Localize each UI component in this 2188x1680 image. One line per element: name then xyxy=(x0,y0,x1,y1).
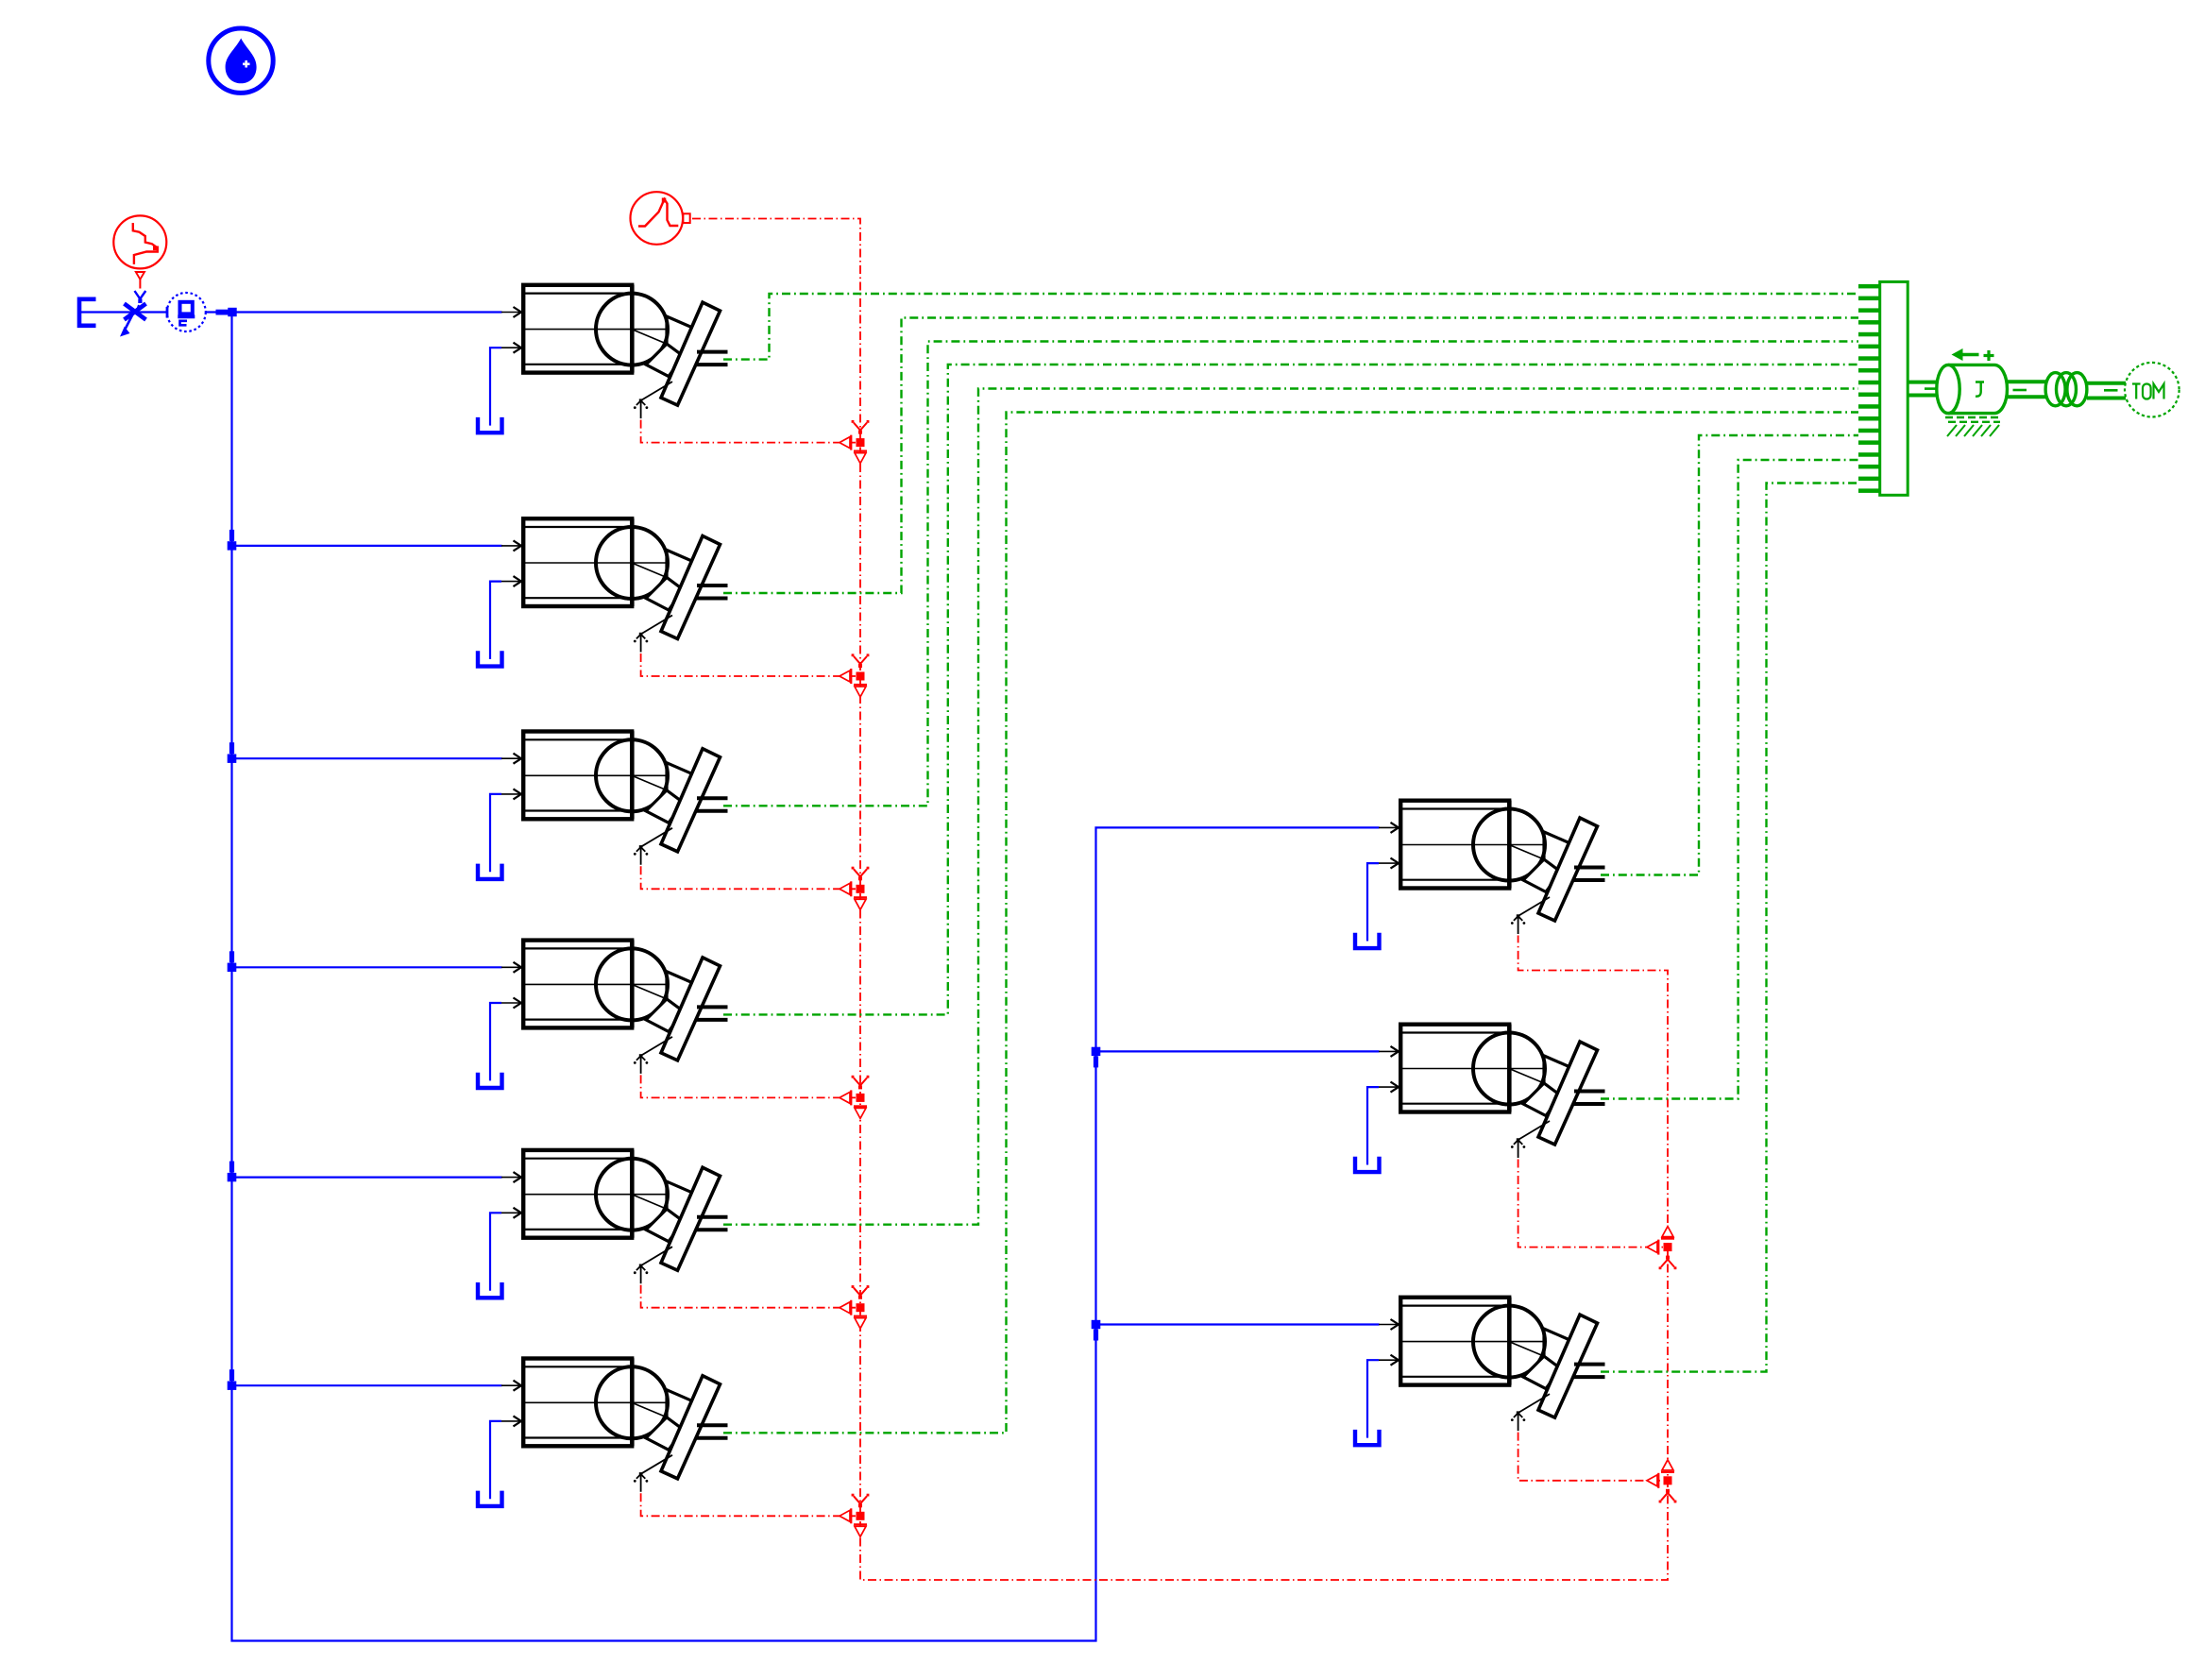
wire tap to pump L2 xyxy=(232,545,502,547)
wire control pump L1 xyxy=(641,420,856,443)
red junction pump L1 xyxy=(840,420,869,464)
wire shaft pump L1 to junction lane 1 xyxy=(723,294,1858,360)
rotary multiport junction (comb) xyxy=(1858,281,1908,495)
wire signal source 2 to left trunk, bottom run, right trunk xyxy=(692,219,1668,1581)
wire shaft pump L5 lane 5 xyxy=(723,389,1858,1225)
pump L1 xyxy=(478,285,728,433)
wire tap to pump L5 xyxy=(232,1176,502,1178)
signal source 1 (piecewise) xyxy=(113,215,166,279)
shaft inertia to spring xyxy=(2007,382,2046,397)
red junction pump R2 xyxy=(1647,1227,1676,1270)
blue tap junction L5 xyxy=(228,1162,237,1182)
blue tap junction L3 xyxy=(228,742,237,763)
shaft spring to torque meter xyxy=(2087,383,2126,399)
wire tap to pump L6 xyxy=(232,1384,502,1386)
torsion spring xyxy=(2045,373,2087,406)
blue tap junction R2 xyxy=(1092,1047,1101,1068)
wire shaft pump L4 lane 4 xyxy=(723,365,1858,1014)
wire shaft pump R1 lane 7 xyxy=(1601,435,1858,875)
ground (hatched support) xyxy=(1945,416,2000,418)
wire tap to pump R3 xyxy=(1096,1323,1380,1325)
fluid properties icon xyxy=(209,28,273,93)
pump L4 xyxy=(478,940,728,1088)
pump L6 xyxy=(478,1358,728,1506)
wire tap to pump L4 xyxy=(232,966,502,968)
pump L3 xyxy=(478,731,728,879)
wire supply trunk down, bottom run, right trunk up to pump R1 xyxy=(232,313,1380,1641)
blue tap junction L2 xyxy=(228,530,237,551)
wire control pump L2 xyxy=(641,653,856,676)
blue main junction xyxy=(216,308,237,316)
wire control pump R2 xyxy=(1518,1160,1663,1247)
rotation direction arrow and plus sign xyxy=(1956,353,1979,357)
red junction pump R3 xyxy=(1647,1460,1676,1503)
wire shaft pump L6 lane 6 xyxy=(723,413,1858,1434)
pump L5 xyxy=(478,1150,728,1298)
wire shaft pump R2 lane 8 xyxy=(1601,460,1858,1099)
red junction pump L2 xyxy=(840,653,869,697)
pump R2 xyxy=(1355,1025,1605,1173)
wire shaft pump R3 lane 9 xyxy=(1601,484,1858,1372)
red junction pump L6 xyxy=(840,1494,869,1537)
tank (left reservoir) xyxy=(79,299,96,326)
wire red source 1 drop xyxy=(139,280,141,289)
wire control pump R3 xyxy=(1518,1433,1663,1481)
wire sensor to junction to pump 1 xyxy=(206,311,502,313)
pump L2 xyxy=(478,518,728,667)
red junction pump L5 xyxy=(840,1285,869,1329)
red junction pump L3 xyxy=(840,867,869,910)
wire tank to valve to sensor xyxy=(81,311,167,313)
wire shaft pump L2 lane 2 xyxy=(723,318,1858,594)
shaft comb to inertia xyxy=(1908,382,1938,396)
rotary inertia J xyxy=(1937,348,2008,436)
blue tap junction R3 xyxy=(1092,1320,1101,1341)
wire tap to pump L3 xyxy=(232,757,502,759)
wire tap to pump R2 xyxy=(1096,1050,1380,1052)
blue tap junction L4 xyxy=(228,951,237,972)
wire control pump L5 xyxy=(641,1285,856,1308)
torque meter TOM xyxy=(2125,363,2180,417)
wire control pump L3 xyxy=(641,866,856,889)
signal source 2 (piecewise) xyxy=(631,192,690,245)
wire shaft pump L3 lane 3 xyxy=(723,342,1858,806)
throttle valve xyxy=(120,291,146,337)
wire control pump L6 xyxy=(641,1493,856,1516)
blue tap junction L6 xyxy=(228,1369,237,1390)
red junction pump L4 xyxy=(840,1076,869,1119)
pump R3 xyxy=(1355,1298,1605,1446)
pump R1 xyxy=(1355,801,1605,949)
wire control pump L4 xyxy=(641,1075,856,1097)
flow sensor xyxy=(167,293,206,331)
